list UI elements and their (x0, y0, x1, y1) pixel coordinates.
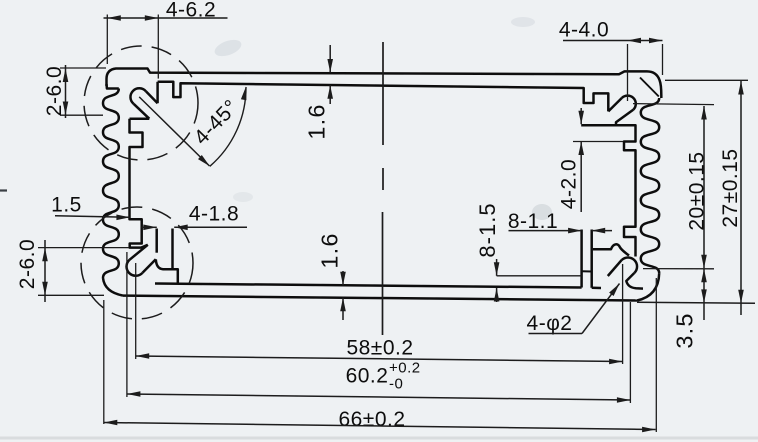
svg-text:4-φ2: 4-φ2 (527, 312, 573, 335)
svg-text:3.5: 3.5 (672, 312, 698, 348)
svg-text:1.5: 1.5 (51, 194, 82, 217)
svg-text:8-1.1: 8-1.1 (508, 210, 558, 233)
svg-text:1.6: 1.6 (304, 103, 330, 139)
svg-text:-0: -0 (389, 375, 403, 392)
svg-text:4-1.8: 4-1.8 (189, 203, 239, 226)
svg-text:+0.2: +0.2 (389, 359, 421, 376)
svg-text:66±0.2: 66±0.2 (338, 408, 405, 431)
svg-text:2-6.0: 2-6.0 (16, 239, 39, 289)
svg-text:4-2.0: 4-2.0 (558, 159, 581, 209)
svg-text:1.6: 1.6 (317, 232, 343, 268)
svg-text:8-1.5: 8-1.5 (475, 202, 500, 257)
svg-text:2-6.0: 2-6.0 (43, 66, 66, 116)
svg-text:4-4.0: 4-4.0 (559, 19, 609, 42)
svg-text:58±0.2: 58±0.2 (346, 337, 413, 360)
svg-text:27±0.15: 27±0.15 (719, 148, 742, 227)
svg-text:20±0.15: 20±0.15 (686, 151, 709, 230)
svg-text:60.2: 60.2 (346, 365, 389, 388)
